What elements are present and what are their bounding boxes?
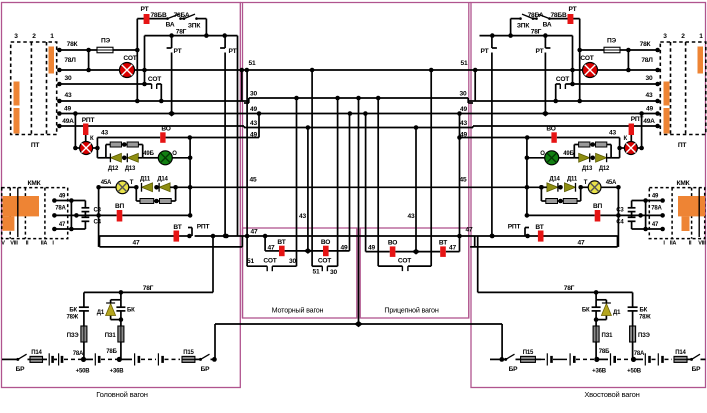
wire 49Б to lamp О bbox=[143, 157, 159, 159]
svg-text:ВП: ВП bbox=[115, 203, 125, 210]
svg-text:РТ: РТ bbox=[141, 6, 149, 13]
switch 78БА/ЗПК right bbox=[519, 17, 522, 20]
svg-text:Прицепной вагон: Прицепной вагон bbox=[384, 306, 438, 315]
wire 49 row right bbox=[458, 113, 658, 115]
svg-text:78А: 78А bbox=[634, 351, 645, 357]
svg-text:47: 47 bbox=[578, 240, 585, 247]
svg-text:РТ: РТ bbox=[481, 48, 489, 55]
node 78Л right connector bbox=[655, 68, 660, 73]
svg-text:47: 47 bbox=[268, 245, 275, 252]
battery cells right group1 bbox=[541, 358, 545, 360]
node 78Б left bbox=[117, 357, 122, 362]
connector box КМК right bbox=[649, 188, 704, 239]
svg-text:СОТ: СОТ bbox=[398, 258, 411, 265]
wire БК branch right bbox=[632, 292, 634, 307]
wire 49 to К lamp bbox=[74, 114, 76, 149]
contact РТ right top (red) bbox=[568, 14, 574, 24]
wire 45 bus right segment bbox=[540, 186, 542, 188]
КМК link 49-47 right bbox=[645, 201, 647, 230]
svg-text:КМК: КМК bbox=[28, 180, 42, 187]
node 78Л left connector bbox=[57, 68, 62, 73]
switch ВТ motor (red) bbox=[279, 246, 285, 257]
svg-text:78Б: 78Б bbox=[599, 349, 610, 355]
wire lamp О to riser bbox=[172, 157, 190, 159]
КМК row 47 left bbox=[54, 228, 85, 230]
svg-text:ВО: ВО bbox=[321, 239, 330, 246]
switch БР right1 bbox=[504, 358, 507, 361]
switch ВТ trailer (red) bbox=[440, 246, 446, 257]
orange pin bar right 3b bbox=[664, 108, 670, 134]
wire ВТ/47 bus left part bbox=[100, 235, 174, 237]
svg-text:78Г: 78Г bbox=[176, 29, 187, 36]
fuse ПЗЭ left bbox=[81, 326, 87, 342]
svg-text:ЗПК: ЗПК bbox=[517, 23, 530, 30]
svg-text:49А: 49А bbox=[643, 118, 655, 125]
wire switch row top bbox=[137, 18, 167, 20]
svg-text:78БВ: 78БВ bbox=[150, 12, 166, 19]
bus 51 middle bbox=[242, 69, 475, 71]
svg-text:45А: 45А bbox=[101, 180, 112, 186]
svg-text:49: 49 bbox=[341, 245, 348, 252]
lower bridge resistors right bbox=[580, 187, 582, 201]
orange block КМК left small bbox=[3, 216, 15, 230]
wire 45 bus bbox=[176, 186, 542, 188]
wire 78Г drop to lamp row right bbox=[572, 36, 574, 84]
svg-text:РПТ: РПТ bbox=[197, 224, 210, 231]
svg-text:ВТ: ВТ bbox=[535, 224, 543, 231]
switch 78БВ/ВА left bbox=[166, 17, 169, 20]
svg-text:БР: БР bbox=[692, 366, 702, 373]
wire 30 row right bbox=[565, 83, 657, 85]
lamp Т left (yellow) bbox=[116, 181, 129, 194]
wire motor row hook to 49 bus bbox=[349, 114, 351, 251]
svg-text:30: 30 bbox=[250, 91, 257, 98]
svg-text:49: 49 bbox=[368, 245, 375, 252]
svg-text:49Б: 49Б bbox=[143, 151, 154, 157]
svg-text:Д1: Д1 bbox=[613, 310, 621, 316]
svg-text:Д1: Д1 bbox=[97, 310, 105, 316]
svg-text:47: 47 bbox=[59, 222, 66, 228]
orange block КМК right big bbox=[678, 196, 705, 216]
panel frame head car (Головной вагон) bbox=[2, 3, 241, 388]
contact РТ right 1 bbox=[544, 36, 546, 48]
svg-text:43: 43 bbox=[609, 130, 616, 137]
svg-text:51: 51 bbox=[313, 269, 320, 276]
svg-text:78А: 78А bbox=[651, 206, 662, 212]
capacitor С4 left bbox=[84, 212, 86, 218]
svg-text:45: 45 bbox=[250, 177, 257, 184]
wire between switches bbox=[181, 18, 185, 20]
svg-text:РПТ: РПТ bbox=[82, 117, 95, 124]
svg-text:43: 43 bbox=[299, 213, 306, 220]
КМК right internal pin line bbox=[698, 188, 700, 237]
connector box КМК left bbox=[2, 188, 68, 239]
fuse ПЗ1 left bbox=[118, 326, 124, 342]
svg-text:РТ: РТ bbox=[174, 48, 182, 55]
svg-text:3: 3 bbox=[14, 33, 18, 40]
orange pin bar right 3a bbox=[664, 82, 670, 106]
fuse ПЗ1 right bbox=[593, 326, 599, 342]
КМК link 49-47 left bbox=[70, 201, 72, 230]
node battery right end left panel bbox=[212, 357, 217, 362]
hook 43branch/49bus left bbox=[258, 114, 260, 138]
svg-text:ПТ: ПТ bbox=[678, 142, 687, 149]
svg-text:ПЗ1: ПЗ1 bbox=[602, 333, 614, 339]
diode Д12 right bbox=[607, 157, 612, 159]
svg-text:43: 43 bbox=[460, 120, 467, 127]
svg-text:Моторный вагон: Моторный вагон bbox=[272, 306, 324, 315]
svg-text:БР: БР bbox=[509, 366, 519, 373]
svg-text:30: 30 bbox=[330, 269, 337, 276]
svg-text:78БВ: 78БВ bbox=[550, 12, 566, 19]
wire 45А row right bbox=[616, 185, 621, 190]
svg-text:О: О bbox=[172, 151, 177, 157]
wire Т to bridge bbox=[129, 186, 137, 188]
wire 78К row bbox=[59, 49, 97, 51]
svg-text:78К: 78К bbox=[640, 41, 652, 48]
svg-text:51: 51 bbox=[249, 60, 256, 67]
battery cells right group2 bbox=[599, 358, 608, 360]
wire 30 row left bbox=[59, 83, 151, 85]
wire 45А/45 row left start bbox=[96, 185, 101, 190]
lamp О right (green) bbox=[545, 151, 559, 165]
diode Д12 left bbox=[106, 157, 111, 159]
svg-text:IIА: IIА bbox=[670, 241, 677, 247]
wire К lamp row right bbox=[637, 147, 641, 149]
svg-text:49: 49 bbox=[250, 132, 257, 139]
svg-text:РПТ: РПТ bbox=[508, 224, 521, 231]
switch ВП left (red) bbox=[117, 210, 123, 222]
switch ВП right (red) bbox=[595, 210, 601, 222]
КМК row 47 right bbox=[632, 228, 663, 230]
47 lower row jog to bus bbox=[241, 236, 243, 247]
switch БР left2 bbox=[199, 358, 202, 361]
svg-text:Д14: Д14 bbox=[549, 177, 560, 183]
battery cells left group1 bbox=[48, 353, 50, 365]
svg-text:СОТ: СОТ bbox=[580, 55, 593, 62]
wire 47 lower row right bbox=[617, 236, 619, 247]
wire switch row to 78Г right bbox=[511, 18, 521, 20]
svg-text:2: 2 bbox=[681, 33, 685, 40]
svg-text:ВТ: ВТ bbox=[439, 240, 447, 247]
svg-text:К: К bbox=[90, 136, 94, 142]
node battery left end right panel bbox=[499, 357, 504, 362]
wire riser 78К to switch row bbox=[136, 19, 138, 101]
battery cells right group3 bbox=[636, 358, 644, 360]
riser ВО-branch left bbox=[189, 138, 191, 216]
orange pin bar left 1 bbox=[49, 47, 55, 74]
riser 47bus to battery right bbox=[477, 236, 479, 292]
battery cells left group2 bbox=[85, 358, 93, 360]
svg-text:49: 49 bbox=[646, 106, 653, 113]
wire 78Г battery row left bbox=[84, 291, 213, 293]
svg-text:Д13: Д13 bbox=[582, 166, 593, 172]
seam link 51-43 right bbox=[474, 70, 476, 101]
svg-text:О: О bbox=[540, 151, 545, 157]
battery cells left group3 bbox=[121, 358, 132, 360]
capacitor БК left-leg right block bbox=[595, 300, 597, 307]
contact РТ left top (red) bbox=[144, 14, 150, 24]
svg-text:П14: П14 bbox=[31, 350, 42, 356]
svg-text:Д13: Д13 bbox=[125, 166, 136, 172]
diode Д14 left bbox=[154, 185, 159, 190]
svg-text:51: 51 bbox=[247, 258, 254, 265]
КМК row 78А right bbox=[618, 214, 662, 216]
switch БР left bbox=[16, 358, 19, 361]
orange block КМК left big bbox=[3, 196, 40, 216]
capacitor С4 right bbox=[631, 212, 633, 218]
svg-text:78Г: 78Г bbox=[143, 285, 154, 292]
svg-text:47: 47 bbox=[449, 245, 456, 252]
svg-text:С4: С4 bbox=[616, 220, 624, 226]
wire 78Г row left bbox=[145, 35, 238, 37]
svg-text:ВА: ВА bbox=[543, 22, 552, 29]
switch ВТ right (red) bbox=[538, 231, 544, 242]
diode Д14 right bbox=[558, 185, 563, 190]
svg-text:С4: С4 bbox=[94, 220, 102, 226]
svg-text:IIА: IIА bbox=[41, 241, 48, 247]
svg-text:49: 49 bbox=[59, 194, 66, 200]
wire ВТ/47 bus right part bbox=[538, 235, 544, 237]
wire 47 lower row left bbox=[99, 236, 101, 247]
wire motor ВТ/ВО row bbox=[264, 236, 266, 251]
wire 49 row left bbox=[59, 113, 259, 115]
diode bridge right upper terminals bbox=[610, 145, 612, 158]
connector box left pins 3 2 1 bbox=[11, 42, 57, 135]
svg-text:КМК: КМК bbox=[677, 180, 691, 187]
svg-text:ВО: ВО bbox=[546, 126, 555, 133]
resistor R-Д12 right bbox=[590, 144, 596, 146]
node 78К right connector bbox=[655, 48, 660, 53]
svg-text:49А: 49А bbox=[62, 118, 74, 125]
svg-text:ПТ: ПТ bbox=[31, 142, 40, 149]
svg-text:1: 1 bbox=[699, 33, 703, 40]
svg-text:СОТ: СОТ bbox=[123, 55, 136, 62]
svg-text:30: 30 bbox=[289, 258, 296, 265]
wire 49 to К lamp right bbox=[641, 114, 643, 149]
svg-text:ВА: ВА bbox=[166, 22, 175, 29]
wire Т to bridge right bbox=[581, 186, 589, 188]
svg-text:РТ: РТ bbox=[569, 6, 577, 13]
bus 49 middle bbox=[259, 113, 458, 115]
wire СОТ3 trailer row bbox=[377, 98, 379, 266]
diode Д11 left bbox=[142, 183, 153, 192]
svg-text:47: 47 bbox=[251, 229, 258, 236]
svg-text:БК: БК bbox=[640, 308, 648, 314]
svg-text:30: 30 bbox=[65, 75, 72, 82]
svg-text:78Г: 78Г bbox=[531, 29, 542, 36]
fuse ПЭ right bbox=[604, 47, 620, 53]
svg-text:43: 43 bbox=[408, 213, 415, 220]
svg-text:СОТ: СОТ bbox=[318, 258, 331, 265]
wire ВП row left bbox=[96, 213, 101, 218]
svg-text:78А: 78А bbox=[55, 206, 66, 212]
wire trailer row to 47 bus (long 49-hook) bbox=[459, 114, 461, 252]
svg-text:45: 45 bbox=[460, 177, 467, 184]
svg-text:47: 47 bbox=[652, 222, 659, 228]
wire battery row right bbox=[490, 358, 502, 360]
svg-text:49: 49 bbox=[652, 194, 659, 200]
wire riser 78К to switch row right bbox=[579, 19, 581, 101]
wire СОТ2 motor row bbox=[311, 70, 313, 266]
orange pin bar left 3a bbox=[14, 82, 20, 106]
svg-text:78БА: 78БА bbox=[174, 12, 190, 19]
wire 43 branch to hook right bbox=[458, 137, 551, 139]
fuse П14 left bbox=[30, 356, 43, 362]
resistor R-Д13 right bbox=[607, 144, 611, 146]
center divider drop bbox=[358, 98, 360, 324]
svg-text:1: 1 bbox=[50, 33, 54, 40]
node 78К left connector bbox=[57, 48, 62, 53]
svg-text:БК: БК bbox=[582, 308, 590, 314]
svg-text:С3: С3 bbox=[616, 208, 624, 214]
switch 78БВ/ВА right bbox=[535, 17, 538, 20]
КМК row 78А left bbox=[54, 214, 98, 216]
resistor R-Д12 left bbox=[106, 144, 110, 146]
svg-text:ВТ: ВТ bbox=[173, 224, 181, 231]
diode Д13 right bbox=[590, 156, 595, 161]
svg-text:49: 49 bbox=[250, 106, 257, 113]
svg-text:78Ж: 78Ж bbox=[639, 315, 651, 321]
link 78К-78Л bbox=[88, 50, 90, 70]
svg-text:78К: 78К bbox=[67, 41, 79, 48]
bus 78Г bottom middle bbox=[215, 323, 502, 325]
node motor diamond 43 bbox=[304, 248, 312, 254]
bus 30 middle bbox=[249, 97, 468, 99]
wire 43 branch row right bbox=[619, 138, 621, 158]
bus 43 middle bbox=[244, 127, 473, 129]
orange pin bar right 1 bbox=[698, 47, 704, 74]
wire 78Л/51 row right bbox=[598, 69, 658, 71]
wire 78Г drop to lamp row bbox=[144, 36, 146, 84]
svg-text:Т: Т bbox=[130, 180, 134, 186]
svg-text:30: 30 bbox=[460, 91, 467, 98]
svg-text:БК: БК bbox=[127, 308, 135, 314]
svg-text:ПЗ1: ПЗ1 bbox=[105, 333, 117, 339]
svg-text:78БА: 78БА bbox=[528, 12, 544, 19]
svg-text:Т: Т bbox=[584, 180, 588, 186]
svg-text:РТ: РТ bbox=[229, 48, 237, 55]
svg-text:Д12: Д12 bbox=[599, 166, 610, 172]
contact СОТ left (to 30/43 rows) bbox=[151, 84, 153, 89]
svg-text:+50В: +50В bbox=[627, 369, 642, 375]
switch ВТ left (red) bbox=[174, 231, 180, 242]
svg-text:V: V bbox=[1, 241, 5, 247]
svg-text:РТ: РТ bbox=[536, 48, 544, 55]
wire 43 row right bbox=[468, 100, 658, 102]
КМК row 49 left bbox=[54, 200, 85, 202]
svg-text:+50В: +50В bbox=[76, 369, 91, 375]
diode Д1 block right bbox=[594, 290, 599, 295]
svg-text:ВТ: ВТ bbox=[277, 239, 285, 246]
svg-text:П14: П14 bbox=[675, 350, 686, 356]
svg-text:ПЭ: ПЭ bbox=[607, 38, 617, 45]
node 47bus seam dots bbox=[211, 234, 216, 239]
svg-text:78Г: 78Г bbox=[564, 285, 575, 292]
contact РТ right 2 bbox=[491, 36, 493, 48]
middle section top border bbox=[240, 2, 471, 4]
svg-text:СОТ: СОТ bbox=[556, 76, 569, 83]
svg-text:43: 43 bbox=[65, 92, 72, 99]
svg-text:К: К bbox=[624, 136, 628, 142]
wire 78Л/51 row left bbox=[59, 69, 119, 71]
svg-text:П15: П15 bbox=[183, 350, 194, 356]
riser 47bus to battery left bbox=[212, 236, 214, 292]
svg-text:47: 47 bbox=[466, 227, 473, 234]
node trailer diamond 43 bbox=[412, 249, 420, 255]
svg-text:Д11: Д11 bbox=[140, 177, 151, 183]
svg-text:ВО: ВО bbox=[388, 240, 397, 247]
lamp К right (red) bbox=[624, 142, 637, 155]
capacitor БК right-leg left block bbox=[120, 300, 122, 307]
svg-text:43: 43 bbox=[101, 130, 108, 137]
svg-text:Д11: Д11 bbox=[567, 177, 578, 183]
svg-text:ПЗЭ: ПЗЭ bbox=[67, 333, 80, 339]
seam magenta line left bbox=[242, 3, 244, 319]
resistor R-Д13 left bbox=[122, 144, 128, 146]
svg-text:ПЗЭ: ПЗЭ bbox=[638, 333, 651, 339]
wire 49А row right bbox=[473, 125, 658, 127]
contact РПТ right lower bbox=[524, 228, 526, 237]
wire 78Г drop seam bbox=[237, 36, 239, 236]
capacitor С3 right bbox=[631, 201, 633, 208]
switch ВО motor (red) bbox=[323, 246, 329, 257]
svg-text:30: 30 bbox=[646, 75, 653, 82]
diode Д13 left bbox=[122, 156, 127, 161]
fuse П15 left bbox=[182, 356, 195, 362]
fuse ПЗЭ right bbox=[630, 326, 636, 342]
svg-text:П15: П15 bbox=[523, 350, 534, 356]
diode bridge left upper terminals bbox=[105, 145, 107, 158]
svg-text:ПЭ: ПЭ bbox=[101, 38, 111, 45]
hook 43branch/49bus right bbox=[457, 111, 462, 116]
lower bridge resistors left bbox=[135, 187, 137, 201]
wire trailer ВО/ВТ row bbox=[365, 114, 367, 252]
wire 43 branch to hook bbox=[166, 137, 259, 139]
lamp СОТ right (red) bbox=[583, 63, 598, 78]
contact РПТ left lower bbox=[191, 228, 193, 237]
svg-text:VIII: VIII bbox=[10, 241, 18, 247]
wire lamp О to riser right bbox=[527, 157, 545, 159]
svg-text:2: 2 bbox=[32, 33, 36, 40]
svg-text:43: 43 bbox=[250, 120, 257, 127]
lamp К left (red) bbox=[80, 142, 93, 155]
svg-text:БР: БР bbox=[201, 366, 211, 373]
box motor car (Моторный вагон) bbox=[243, 228, 357, 318]
fuse П15 right bbox=[521, 356, 536, 362]
diode Д11 right bbox=[565, 183, 576, 192]
svg-text:45А: 45А bbox=[606, 180, 617, 186]
orange block КМК right small bbox=[682, 216, 690, 231]
svg-text:Головной вагон: Головной вагон bbox=[96, 390, 148, 399]
svg-text:49: 49 bbox=[64, 106, 71, 113]
switch БР right2 bbox=[690, 358, 693, 361]
orange pin bar left 3b bbox=[14, 108, 20, 134]
svg-text:78Ж: 78Ж bbox=[67, 315, 79, 321]
svg-text:ЗПК: ЗПК bbox=[188, 23, 201, 30]
svg-text:Д14: Д14 bbox=[157, 177, 168, 183]
svg-text:78Л: 78Л bbox=[641, 57, 653, 64]
fuse П14 right bbox=[674, 356, 687, 362]
svg-text:51: 51 bbox=[461, 60, 468, 67]
node 78А right bbox=[631, 357, 636, 362]
fuse ПЭ left bbox=[97, 47, 113, 53]
switch 78БА/ЗПК left bbox=[183, 17, 186, 20]
contact РТ left 2 bbox=[224, 36, 226, 48]
wire switch row top right bbox=[550, 18, 580, 20]
wire СОТ1 motor row bbox=[246, 70, 248, 266]
КМК row 49 right bbox=[632, 200, 663, 202]
